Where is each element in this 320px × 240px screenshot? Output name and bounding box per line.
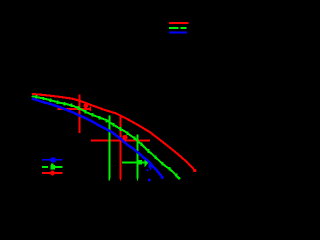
blue dot at axis (148, 179, 151, 182)
legend lower-left: green dashed line (42, 166, 63, 168)
legend lower-left: red line (42, 172, 63, 174)
red marker B (122, 135, 127, 140)
legend lower-left: blue marker (51, 157, 56, 162)
green curve ticks (37, 95, 177, 177)
blue curve overlay segment (142, 156, 151, 164)
green error bar 1 tip (109, 179, 110, 181)
blue curve (33, 99, 163, 178)
legend top-right: red line (169, 22, 189, 24)
red error bar B tip (120, 179, 121, 181)
green error bar 1 (108, 116, 110, 179)
blue speck left of arrow (147, 169, 149, 171)
legend top-right: blue line (169, 32, 187, 34)
legend lower-left: red marker (50, 171, 55, 176)
red error bar A horizontal (57, 106, 90, 111)
green curve (33, 96, 179, 178)
green error bar 2 (136, 135, 138, 179)
red marker A (83, 103, 88, 108)
red curve end dot (193, 169, 196, 172)
legend lower-left: green marker (50, 163, 55, 169)
legend top-right: green dashed line (169, 27, 187, 29)
red curve (33, 94, 195, 170)
green horizontal error bar (122, 161, 145, 163)
red error bar A vertical (79, 95, 81, 133)
green curve end dot (178, 177, 181, 180)
green error bar 2 tip (137, 179, 138, 181)
green square marker (137, 160, 142, 165)
blue curve end dot (161, 176, 164, 179)
legend lower-left: blue item (42, 159, 63, 161)
blue arrow marker (148, 165, 153, 171)
red error bar B vertical (119, 115, 121, 179)
red error bar B horizontal (91, 139, 150, 141)
